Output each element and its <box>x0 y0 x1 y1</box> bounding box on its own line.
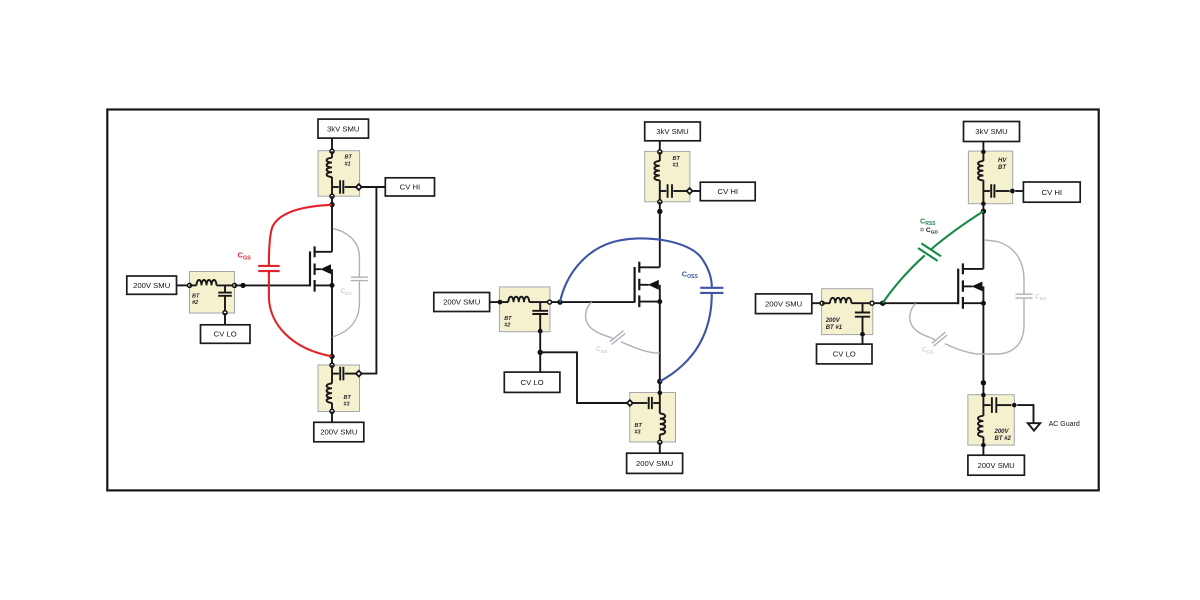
wire BT#2 to CV LO <box>224 313 226 325</box>
node BT#1 top <box>330 149 334 153</box>
capacitor Coss (blue) <box>700 288 723 293</box>
capacitor Cgs stray (gray right) <box>932 332 947 346</box>
wire source rail (middle) <box>659 285 661 393</box>
wire to CV HI <box>362 186 386 188</box>
bias tee BT#2 block (left) <box>190 272 235 314</box>
wire drain rail (middle) <box>659 202 661 267</box>
figure outer border <box>107 110 1098 491</box>
node BT#3 cap output (diamond) <box>356 371 362 377</box>
box 200V SMU (middle input) <box>434 293 490 312</box>
wire Cds stray upper (gray) <box>333 228 360 276</box>
svg-text:CV LO: CV LO <box>833 350 856 359</box>
node BT#3 bottom (middle) <box>658 440 662 444</box>
node gate junction green <box>880 301 885 306</box>
wire 200V SMU to BT#2 <box>177 284 190 286</box>
box 200V SMU (right bottom) <box>968 455 1025 475</box>
bias tee BT#1 block (left) <box>318 151 360 197</box>
bias tee HV BT block <box>968 151 1012 204</box>
svg-text:200V SMU: 200V SMU <box>978 461 1015 470</box>
wire Cds stray upper (gray right) <box>985 240 1024 294</box>
node drain junction green <box>981 209 986 214</box>
node CV LO branch junction <box>538 350 543 355</box>
AC Guard symbol (open triangle) <box>1028 423 1040 430</box>
wire source rail (right) <box>982 286 984 395</box>
bias tee 200V BT#1 block <box>822 289 873 335</box>
node drain junction (red) <box>329 202 334 207</box>
svg-text:CV LO: CV LO <box>214 330 237 339</box>
wire to 200V SMU (right bottom) <box>982 445 984 455</box>
node HV BT cap output <box>1010 189 1015 194</box>
inductor L1 in HV BT <box>978 161 983 180</box>
node source stub junction (right) <box>981 301 986 306</box>
svg-text:COSS: COSS <box>682 269 699 280</box>
wire CV HI rail down to BT#3 cap <box>362 187 377 374</box>
wire to CV HI (middle) <box>692 190 700 192</box>
svg-text:3kV SMU: 3kV SMU <box>327 124 359 133</box>
inductor L1 in BT#1 <box>327 158 332 177</box>
box 200V SMU (right input) <box>756 294 812 314</box>
bias tee BT#1 block (middle) <box>645 151 690 201</box>
svg-text:CGS: CGS <box>238 251 252 262</box>
transistor Q2 (N-ch MOSFET) <box>635 262 660 307</box>
node source junction (red) <box>329 354 334 359</box>
svg-text:3kV SMU: 3kV SMU <box>656 127 688 136</box>
wire L1 down (right) <box>982 180 984 203</box>
wire 3kV SMU to BT#1 <box>659 141 661 152</box>
wire 200V SMU to 200V BT#1 <box>812 302 822 304</box>
node BT#2 right (middle) <box>548 300 552 304</box>
inductor L3 in 200V BT#2 <box>978 416 983 437</box>
node BT#1 bottom <box>330 194 334 198</box>
inductor L1 in BT#1 (middle) <box>654 161 659 180</box>
capacitor C3 in 200V BT#2 <box>983 404 990 406</box>
transistor Q3 (N-ch MOSFET) <box>958 263 983 308</box>
wire Cgs stray part 2 <box>621 342 660 353</box>
svg-text:CV HI: CV HI <box>718 187 739 196</box>
svg-text:200V SMU: 200V SMU <box>443 298 480 307</box>
svg-text:CGS: CGS <box>596 346 608 354</box>
inductor L3 in BT#3 <box>327 384 332 403</box>
node BT#2 right <box>233 283 237 287</box>
wire Crss lower (green) <box>883 255 925 303</box>
node 200V BT#1 left <box>820 301 824 305</box>
node BT#1 cap output diamond (middle) <box>687 188 693 194</box>
node HV BT bottom <box>981 201 986 206</box>
wire to 200V SMU (middle bottom) <box>659 442 661 453</box>
node BT#3 top (middle) <box>658 391 663 396</box>
node BT#2 bottom <box>223 311 227 315</box>
wire source rail <box>331 269 333 365</box>
wire Cgs upper (red) <box>269 205 332 265</box>
wire Cgs lower (red) <box>269 272 332 357</box>
svg-text:CV HI: CV HI <box>400 183 421 192</box>
svg-text:CV HI: CV HI <box>1042 188 1063 197</box>
node source junction blue (middle) <box>657 379 662 384</box>
svg-text:CDS: CDS <box>341 288 352 296</box>
node 200V BT#2 cap output <box>1012 403 1017 408</box>
box CV HI (left) <box>385 178 434 196</box>
svg-text:CRSS: CRSS <box>920 216 936 227</box>
node 200V BT#2 bottom <box>981 443 986 448</box>
wire into L2 (right) <box>822 302 830 304</box>
wire L3 to bottom (middle) <box>659 435 661 443</box>
node gate junction <box>240 283 245 288</box>
wire branch to BT#3 cap (middle) <box>540 352 627 403</box>
svg-text:CV LO: CV LO <box>521 378 544 387</box>
capacitor Cds stray (gray) <box>351 277 368 280</box>
wire L2 to gate (right) <box>851 302 958 304</box>
node 200V BT#1 right <box>870 301 874 305</box>
bias tee BT#3 block (middle) <box>630 393 676 443</box>
capacitor C2 in 200V BT#1 <box>862 303 864 312</box>
node BT#2 left (middle) <box>498 300 503 305</box>
wire to CV HI (right) <box>1015 190 1023 192</box>
node BT#2 bottom (middle) <box>538 329 543 334</box>
wire into L1 (right) <box>982 152 984 161</box>
svg-text:3kV SMU: 3kV SMU <box>975 127 1007 136</box>
node BT#1 cap output (diamond) <box>356 184 362 190</box>
transistor Q1 (N-ch MOSFET) <box>310 246 332 291</box>
capacitor C2 in BT#2 (middle) <box>539 302 541 310</box>
wire BT#3 rail to inductor <box>331 365 333 383</box>
wire 3kV SMU to HV BT <box>982 142 984 152</box>
node BT#3 bottom <box>330 409 334 413</box>
wire gate <box>235 284 311 286</box>
box CV LO (left) <box>201 325 251 344</box>
wire L3 to BT#3 bottom <box>331 403 333 412</box>
wire Cgs stray (gray right) part 1 <box>910 303 935 339</box>
wire 200V SMU to BT#2 (middle) <box>490 301 500 303</box>
capacitor C1 in HV BT <box>983 190 990 192</box>
capacitor Cgs stray (gray, middle) <box>610 331 625 345</box>
wire drain rail (right) <box>982 204 984 269</box>
node BT#2 left <box>188 283 192 287</box>
wire BT#2 rail (right) <box>982 395 984 416</box>
wire BT#3 to 200V SMU <box>331 412 333 423</box>
capacitor C3 in BT#3 (middle) <box>653 402 660 404</box>
wire Crss upper (green) <box>931 211 984 250</box>
inductor L3 in BT#3 (middle, bumps right) <box>660 414 665 435</box>
node drain junction (middle) <box>657 209 662 214</box>
wire Coss upper (blue) <box>560 238 712 302</box>
node HV BT top <box>981 150 986 155</box>
node gate junction (middle) <box>557 299 562 304</box>
wire Coss lower (blue) <box>660 294 712 382</box>
capacitor C2 in BT#2 <box>224 285 226 292</box>
wire Cgs-Cds stray bottom (gray right) <box>945 299 1024 354</box>
box CV HI (right) <box>1023 182 1080 202</box>
wire into L1 (middle) <box>659 152 661 161</box>
node BT#1 bottom (middle) <box>658 200 662 204</box>
node above 200V BT#2 <box>981 380 986 385</box>
wire L2 to BT#2 right <box>217 284 235 286</box>
node BT#3 cap output diamond (middle) <box>627 400 633 406</box>
box 200V SMU (middle bottom) <box>627 453 683 473</box>
wire Cds stray lower (gray) <box>333 281 360 337</box>
box CV LO (middle) <box>504 372 560 392</box>
capacitor C1 in BT#1 <box>332 186 339 188</box>
box CV LO (right) <box>817 344 873 364</box>
wire drain rail <box>331 196 333 252</box>
svg-text:CDS: CDS <box>1035 293 1046 301</box>
box 3kV SMU (middle) <box>645 122 701 141</box>
wire into L2 <box>190 284 197 286</box>
svg-text:200V SMU: 200V SMU <box>133 281 170 290</box>
bias tee BT#2 block (middle) <box>499 287 550 332</box>
capacitor C1 in BT#1 (middle) <box>660 190 667 192</box>
svg-text:AC Guard: AC Guard <box>1049 421 1080 428</box>
box 3kV SMU (right) <box>964 122 1020 142</box>
wire into L2 (middle) <box>500 301 508 303</box>
wire to AC Guard <box>1017 405 1033 423</box>
wire to CV LO (right) <box>862 334 864 344</box>
wire BT#3 rail (middle) <box>659 393 661 414</box>
inductor L2 in BT#2 <box>197 280 217 285</box>
capacitor Cds stray (gray right) <box>1015 294 1032 298</box>
svg-text:200V SMU: 200V SMU <box>765 299 802 308</box>
box 200V SMU (left bottom) <box>314 422 364 442</box>
wire L3 to bottom (right) <box>982 437 984 445</box>
wire into inductor L1 <box>331 151 333 158</box>
node 200V BT#2 top <box>981 393 986 398</box>
wire L2 to gate (middle) <box>529 301 634 303</box>
bias tee BT#3 block (left) <box>318 365 360 412</box>
node source stub junction (middle) <box>657 299 662 304</box>
wire L1 down (middle) <box>659 180 661 202</box>
capacitor Crss (green diagonal) <box>918 243 941 261</box>
inductor L2 in BT#2 (middle) <box>508 297 529 302</box>
svg-text:200V SMU: 200V SMU <box>320 428 357 437</box>
svg-text:= CGD: = CGD <box>920 227 939 236</box>
node BT#3 top <box>330 363 334 367</box>
svg-text:CGS: CGS <box>922 347 934 355</box>
node source stub junction <box>330 283 335 288</box>
node BT#1 top (middle) <box>658 150 662 154</box>
wire BT#2 to CV LO (middle) <box>539 331 541 372</box>
capacitor Cgs (red) <box>258 266 279 271</box>
wire Cgs stray (gray, middle) part 1 <box>586 302 613 338</box>
svg-text:200V SMU: 200V SMU <box>636 459 673 468</box>
capacitor C3 in BT#3 <box>332 373 339 375</box>
box CV HI (middle) <box>700 182 755 201</box>
wire L1 to BT#1 bottom <box>331 177 333 196</box>
box 3kV SMU (left) <box>318 119 369 138</box>
svg-text:HVBT: HVBT <box>998 158 1007 171</box>
inductor L2 in 200V BT#1 <box>830 298 851 303</box>
node 200V BT#1 bottom <box>860 332 865 337</box>
box 200V SMU (left input) <box>127 276 177 294</box>
bias tee 200V BT#2 block <box>968 395 1014 445</box>
wire 3kV SMU to BT#1 <box>331 138 333 151</box>
